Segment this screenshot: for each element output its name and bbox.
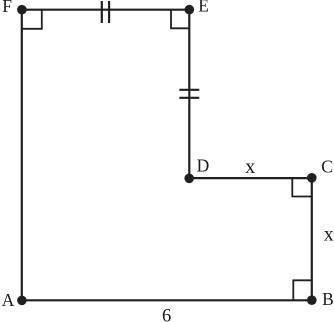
tick marks on side FE [102, 1, 109, 23]
svg-text:x: x [245, 156, 255, 178]
side CD (middle horizontal) [189, 177, 311, 179]
vertex B [307, 295, 317, 305]
right angle marker at C [292, 178, 312, 196]
side DE (middle vertical) [188, 10, 190, 178]
vertex A [17, 296, 27, 306]
svg-text:F: F [2, 0, 12, 16]
svg-text:B: B [322, 289, 334, 309]
side BC (right) [311, 178, 313, 300]
right angle marker at B [293, 280, 312, 300]
svg-text:6: 6 [162, 307, 171, 322]
side AB (bottom) [22, 299, 312, 301]
right angle marker at F [22, 10, 42, 29]
vertex D [184, 174, 194, 184]
vertex F [17, 5, 27, 15]
svg-text:A: A [2, 290, 15, 310]
side FE (top) [22, 9, 190, 11]
side FA (left) [21, 10, 23, 301]
svg-text:C: C [321, 157, 333, 177]
vertex E [185, 5, 195, 15]
tick marks on side DE [179, 90, 199, 98]
svg-text:x: x [324, 223, 334, 245]
vertex C [307, 173, 317, 183]
svg-text:D: D [197, 156, 210, 176]
svg-text:E: E [198, 0, 209, 16]
right angle marker at E [171, 10, 189, 29]
